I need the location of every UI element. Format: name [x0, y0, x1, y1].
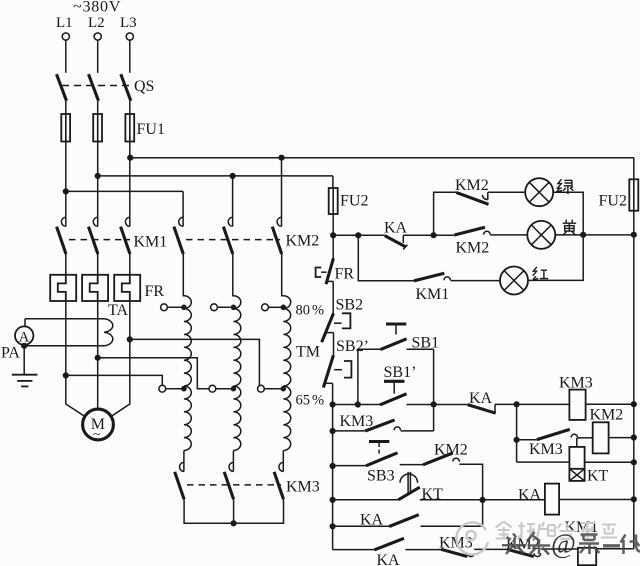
svg-text:KA: KA	[384, 219, 408, 236]
contactor KM3 main contacts	[175, 462, 320, 499]
relay contact KA (rung526)	[360, 512, 419, 529]
svg-text:~: ~	[93, 428, 101, 443]
80% tap terminal winding3	[262, 304, 287, 311]
coil KM3	[559, 375, 593, 420]
wire FU1 to buses	[66, 142, 130, 192]
wire yellow lamp to right	[555, 234, 634, 236]
wire node516 down	[516, 404, 518, 462]
svg-text:KM2: KM2	[434, 442, 468, 459]
junction dot rail rung431	[330, 428, 336, 434]
wire KM1 pole3 to FR	[129, 254, 131, 275]
wire SB1 right to node	[407, 349, 434, 431]
wire rung465 left	[333, 465, 366, 467]
65% tap terminal winding1	[159, 385, 187, 392]
wire KA coil to right rail	[559, 499, 634, 501]
wire SB3 to KM2 contact	[400, 464, 423, 466]
current transformer TA	[24, 319, 113, 375]
wire SB1 branch verticals	[358, 349, 380, 404]
junction dot rail rung405	[330, 401, 336, 407]
svg-text:SB2’: SB2’	[336, 338, 369, 355]
thermal relay FR contact	[316, 258, 355, 284]
wire KM2 pole1 to winding1	[182, 254, 185, 296]
wire L3 to 65% tap of winding3	[130, 339, 260, 385]
lamp red	[500, 267, 528, 295]
wire rung405 left	[333, 404, 381, 406]
svg-text:KM1: KM1	[416, 286, 450, 303]
svg-text:FU2: FU2	[340, 193, 368, 210]
wire KM2 to yellow lamp	[490, 234, 527, 236]
wire red lamp to right leg	[528, 235, 583, 281]
pushbutton SB2' stop second contact	[323, 338, 369, 388]
svg-text:80: 80	[296, 303, 311, 319]
junction dot L1 bus start	[63, 188, 69, 194]
svg-text:FR: FR	[335, 266, 355, 283]
svg-text:KM3: KM3	[286, 479, 320, 496]
wire KT coil top stem	[576, 438, 578, 447]
wire KT coil to right rail	[585, 461, 634, 463]
svg-text:%: %	[312, 393, 324, 409]
wire yellow rung start	[333, 234, 385, 236]
pushbutton SB2 stop	[322, 297, 363, 343]
coil KM1	[565, 519, 599, 565]
svg-text:FR: FR	[145, 283, 165, 300]
svg-text:SB1’: SB1’	[384, 364, 417, 381]
svg-text:QS: QS	[134, 78, 154, 95]
node L1	[56, 15, 73, 40]
svg-text:KA: KA	[518, 486, 542, 503]
junction dot right rail rung439	[631, 434, 637, 440]
junction dot drop482 rung500	[480, 497, 486, 503]
wire SB2 to SB2'	[333, 333, 335, 356]
coil KA	[518, 484, 559, 515]
wire rung431 left	[333, 430, 366, 432]
fuse FU1	[61, 114, 165, 142]
svg-text:KA: KA	[377, 552, 401, 566]
svg-text:KA: KA	[469, 390, 493, 407]
wire QS to FU1 pole1	[65, 101, 67, 114]
wire L3 down to KM1 pole3	[129, 158, 131, 227]
interlock contact KM3 NC (rung439)	[529, 429, 578, 458]
lamp yellow	[527, 221, 555, 249]
relay contact KA (bottom rung)	[374, 538, 404, 566]
watermark logo circle	[456, 522, 488, 554]
wire QS to FU1 pole3	[129, 101, 131, 114]
self-hold contact KM3 NO (rung431)	[340, 413, 401, 431]
wire bus3 corner down to KM2 pole1	[182, 191, 184, 226]
wire KM3 coil to right rail	[586, 403, 634, 405]
wire KT contact to KA coil	[420, 499, 545, 501]
pushbutton SB3	[366, 442, 398, 485]
svg-text:~380V: ~380V	[73, 0, 121, 16]
relay contact KA (lamp rung)	[384, 219, 408, 249]
junction dot lamp node	[431, 232, 437, 238]
wire rung500 left	[333, 499, 399, 501]
autotransformer TM winding 2	[233, 296, 240, 451]
bus L1 lower	[66, 190, 183, 192]
watermark text toutiao at beng yidai (dark gray)	[502, 529, 640, 559]
time contact KT delayed close	[398, 472, 443, 503]
label yellow lamp (hanzi huang)	[563, 220, 577, 235]
wire L1 FR to motor	[66, 301, 87, 418]
fuse FU2 right	[599, 158, 639, 549]
wire L3 drop to QS	[129, 40, 131, 73]
ground	[12, 375, 38, 387]
fuse FU2 left	[329, 176, 369, 214]
wire rung465 right to drop	[459, 464, 482, 526]
junction dot PA bottom	[21, 343, 27, 349]
junction dot rail rung526	[330, 523, 336, 529]
junction dot rung405 node433	[431, 401, 437, 407]
svg-text:SB2: SB2	[336, 297, 364, 314]
wire L2 down to KM1 pole2	[97, 176, 99, 227]
80% tap terminal winding2	[211, 304, 237, 311]
svg-text:@: @	[551, 529, 576, 559]
wire KM2 to green lamp	[488, 191, 525, 193]
node L3	[120, 15, 137, 40]
junction dot L2 tap	[95, 355, 101, 361]
contact KM2 NC (green lamp)	[455, 177, 489, 204]
bus L3 top	[130, 157, 634, 159]
lamp green	[525, 178, 553, 206]
svg-text:KM3: KM3	[340, 413, 374, 430]
wire bus1 dot down to KM2 pole3	[281, 158, 283, 227]
wire KM3 NC to KM2 NC	[474, 548, 507, 550]
wire KM1 coil to right rail	[596, 548, 634, 550]
junction dot L2 bus start	[95, 173, 101, 179]
ammeter PA	[1, 326, 33, 361]
wire rung526 right	[421, 525, 483, 527]
wire green rung left leg	[434, 192, 457, 235]
junction dot L3 tap	[127, 336, 133, 342]
junction dot bus2 to KM2 pole2	[230, 173, 236, 179]
svg-text:65: 65	[296, 393, 311, 409]
junction dot rung405 node516	[514, 401, 520, 407]
junction dot right rail rung462	[631, 459, 637, 465]
wire L3 FR to motor	[110, 301, 130, 418]
wire KM3 NC to KM2 coil	[578, 437, 593, 439]
interlock contact KM3 NC (bottom)	[439, 534, 474, 556]
switch QS	[57, 74, 155, 101]
wire L2 to 65% tap of winding2	[98, 358, 209, 389]
junction dot rail rung465	[330, 463, 336, 469]
svg-text:L2: L2	[88, 15, 105, 31]
wire QS to FU1 pole2	[97, 101, 99, 114]
pushbutton SB1' start second contact	[380, 364, 416, 405]
wire KM2 NC to KM1 coil	[541, 548, 578, 550]
65% tap terminal winding2	[209, 385, 236, 392]
junction dot L1 tap	[63, 372, 69, 378]
wire L1 to 65% tap of winding1	[66, 375, 163, 385]
wire L2 FR to motor	[97, 301, 99, 409]
bus L2 middle	[98, 175, 333, 177]
left rail of start/control rungs	[332, 405, 334, 550]
wire FR to SB2	[332, 281, 334, 313]
pushbutton SB1 start	[380, 324, 439, 352]
svg-text:TA: TA	[108, 302, 128, 319]
svg-text:KM2: KM2	[455, 177, 489, 194]
junction dot star point	[231, 520, 237, 526]
svg-text:KM3: KM3	[529, 441, 563, 458]
wire KM1 to red lamp	[451, 280, 501, 282]
wire L1 down to KM1 pole1	[65, 191, 67, 226]
wire rung526 left	[333, 525, 390, 527]
junction dot right rail lamps	[631, 232, 637, 238]
junction dot bus1 to KM2 pole3	[278, 155, 284, 161]
svg-text:KA: KA	[360, 512, 384, 529]
junction dot lamps right leg	[580, 232, 586, 238]
contactor KM2 main contacts	[174, 217, 319, 254]
svg-text:FU2: FU2	[599, 193, 627, 210]
wire KM1 pole2 to FR	[97, 254, 99, 275]
svg-text:TM: TM	[296, 344, 320, 361]
wire winding3 to KM3 pole3	[282, 451, 284, 472]
junction dot L3 bus start	[127, 155, 133, 161]
junction dot right rail rung500	[631, 496, 637, 502]
svg-text:SB3: SB3	[367, 468, 395, 485]
contact KM1 NO (red lamp)	[414, 273, 451, 303]
svg-text:KM1: KM1	[134, 234, 168, 251]
contact KM2 NO (rung465)	[423, 442, 468, 465]
80% tap terminal winding1	[161, 304, 187, 311]
wire KM1 pole1 to FR	[65, 254, 67, 275]
svg-text:L1: L1	[56, 15, 73, 31]
contactor KM1 main contacts	[57, 217, 168, 254]
svg-text:KM2: KM2	[590, 407, 624, 424]
svg-text:%: %	[312, 303, 324, 319]
junction dot rail rung500	[330, 497, 336, 503]
wire L1 drop to QS	[65, 40, 67, 73]
junction dot red rung branch	[355, 232, 361, 238]
wire rung405 middle	[407, 404, 468, 406]
wire SB2' to start node rung	[332, 383, 334, 404]
coil KM2	[590, 407, 624, 454]
node L2	[88, 15, 105, 40]
motor M	[83, 409, 114, 442]
junction dot control node left	[330, 232, 336, 238]
relay contact KA (rung405)	[468, 390, 496, 413]
wire rung462 left	[517, 461, 570, 463]
wire KA to KM3 coil	[495, 403, 569, 405]
interlock contact KM2 NC (bottom)	[506, 536, 541, 557]
wire red rung left leg	[358, 235, 414, 280]
wire bus2 dot down to KM2 pole2	[232, 176, 234, 227]
watermark text quanqiu dianqi ziyuan (light gray)	[496, 522, 617, 539]
junction dot SB1 branch left	[355, 401, 361, 407]
wire KM3 star point bus	[184, 499, 283, 523]
svg-text:KT: KT	[587, 468, 609, 485]
wire KM2 pole3 to winding3	[282, 254, 284, 296]
contact KM2 NO (yellow lamp)	[454, 227, 490, 256]
autotransformer TM winding 3	[283, 296, 290, 451]
wire winding1 to KM3 pole1	[183, 451, 185, 472]
wire KA to KM3 NC	[406, 549, 442, 551]
label green lamp (hanzi lv)	[557, 179, 574, 193]
svg-text:L3: L3	[120, 15, 137, 31]
wire bottom rung left	[333, 549, 375, 551]
autotransformer TM winding 1	[184, 296, 191, 451]
svg-text:PA: PA	[1, 345, 20, 362]
65% tap terminal winding3	[258, 385, 287, 392]
wire KM2 pole2 to winding2	[232, 254, 235, 296]
coil KT time relay	[569, 447, 608, 485]
junction dot node516 rung439	[514, 437, 520, 443]
junction dot right rail rung405	[631, 401, 637, 407]
wire yellow rung from node	[434, 234, 455, 236]
svg-text:FU1: FU1	[137, 121, 165, 138]
wire L2 drop to QS	[97, 40, 99, 73]
label red lamp (hanzi hong)	[533, 267, 548, 280]
wire FU2 down to control node	[332, 214, 334, 259]
wire winding2 to KM3 pole2	[232, 451, 234, 472]
thermal relay FR heater elements	[50, 275, 164, 301]
wire green lamp to right leg	[553, 192, 583, 235]
wire rung431 right	[401, 430, 434, 432]
wire KA to node	[403, 234, 433, 236]
wire KM2 coil to right rail	[609, 437, 634, 439]
svg-text:KM2: KM2	[286, 233, 320, 250]
svg-text:KM2: KM2	[456, 240, 490, 257]
wire rung439 left	[517, 439, 537, 441]
